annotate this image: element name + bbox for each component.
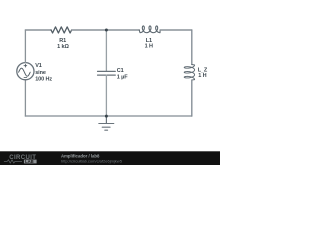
svg-text:1 µF: 1 µF bbox=[117, 74, 128, 80]
wire R1 to L1 bbox=[72, 29, 140, 31]
svg-text:LAB: LAB bbox=[25, 159, 34, 164]
wire top-left horizontal bbox=[25, 29, 51, 31]
watermark logo zigzag bbox=[4, 160, 22, 163]
capacitor C1 plates bbox=[98, 71, 116, 75]
svg-text:1 kΩ: 1 kΩ bbox=[57, 44, 69, 50]
inductor L_2 bbox=[184, 65, 194, 81]
svg-text:1 H: 1 H bbox=[198, 73, 206, 79]
capacitor C1 top lead bbox=[105, 30, 107, 71]
watermark bar bbox=[0, 151, 220, 165]
svg-text:1 H: 1 H bbox=[145, 44, 153, 50]
junction node top bbox=[105, 29, 108, 32]
watermark logo LAB chip bbox=[24, 160, 37, 164]
svg-text:sine: sine bbox=[35, 70, 46, 76]
svg-text:http://circuitlab.com/c/af2e6j: http://circuitlab.com/c/af2e6jmjkw5 bbox=[61, 159, 123, 164]
ground bars bbox=[99, 124, 114, 131]
ground stub bbox=[105, 116, 107, 123]
resistor R1 bbox=[51, 27, 72, 33]
wire L1 to top-right corner bbox=[160, 29, 192, 31]
svg-text:C1: C1 bbox=[117, 68, 124, 74]
wire right side upper bbox=[191, 30, 193, 65]
voltage source V1 circle bbox=[17, 63, 34, 80]
wire right side lower bbox=[191, 80, 193, 116]
wire left side upper bbox=[24, 30, 26, 63]
wire left side lower bbox=[24, 80, 26, 116]
svg-text:V1: V1 bbox=[35, 63, 42, 69]
V1 sine wave bbox=[19, 68, 31, 76]
V1 plus sign bbox=[24, 64, 27, 67]
svg-text:100 Hz: 100 Hz bbox=[35, 76, 52, 82]
capacitor C1 bottom lead bbox=[105, 75, 107, 116]
wire bottom bbox=[25, 115, 191, 117]
V1 minus sign bbox=[24, 77, 27, 79]
inductor L1 bbox=[139, 26, 160, 33]
junction node bottom bbox=[105, 115, 108, 118]
